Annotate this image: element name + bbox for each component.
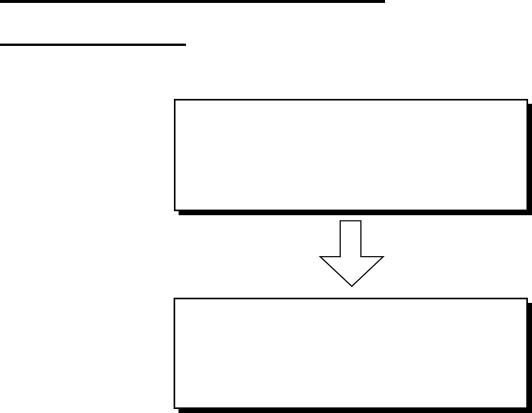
box 2 shadow	[179, 303, 532, 413]
box 1 shadow	[179, 104, 532, 215]
box 2	[174, 299, 527, 409]
down arrow	[320, 221, 383, 286]
subheading underline	[0, 44, 186, 46]
heading underline	[0, 0, 385, 3]
box 1	[175, 100, 528, 211]
